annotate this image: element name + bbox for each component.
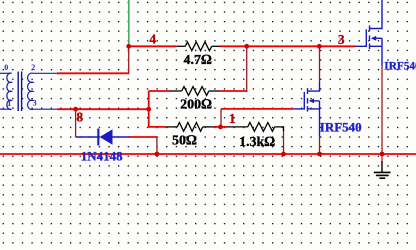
junction node4 at green wire (126, 44, 131, 49)
transformer T1 (0, 72, 57, 112)
junction 1.3k/bottom rail (281, 152, 286, 157)
svg-text:3: 3 (33, 99, 37, 108)
node label 4 (149, 32, 156, 47)
junction diode/bottom rail (155, 152, 160, 157)
wire: 1.3k right corner down to bottom rail (283, 130, 285, 154)
svg-text:4.7Ω: 4.7Ω (183, 53, 212, 68)
wire: M1 source red part down to bottom rail (319, 137, 321, 154)
arrow of M1 (309, 99, 314, 104)
wire: M1 drain red part (319, 46, 321, 82)
resistor 1.3kohm (228, 123, 284, 132)
pin 3 of T1 (33, 99, 37, 108)
svg-text:IRF540: IRF540 (384, 61, 416, 73)
mosfet M2 IRF540 right (355, 0, 382, 66)
svg-text:200Ω: 200Ω (180, 98, 212, 113)
junction transformer/branches (146, 107, 151, 112)
label IRF540 of M1 (320, 119, 362, 134)
wire: vertical at x=148.7 from 200ohm row to 50ohm row (148, 91, 150, 127)
resistor 4.7ohm (177, 42, 220, 51)
junction ground/bottom rail (380, 152, 385, 157)
svg-text:1: 1 (7, 99, 11, 108)
svg-text:1: 1 (229, 111, 236, 126)
svg-text:1N4148: 1N4148 (81, 148, 123, 163)
junction rail/200ohm (244, 44, 249, 49)
svg-text:50Ω: 50Ω (172, 134, 197, 149)
wire: 50ohm right wire to node1 (214, 126, 220, 128)
wire: node1 to 1.3k lead (221, 126, 228, 128)
junction rail/M1 drain (317, 44, 322, 49)
mosfet M1 IRF540 center (293, 82, 320, 137)
label IRF540 of M2 (384, 61, 416, 73)
node label 1 (229, 111, 236, 126)
svg-text:2: 2 (31, 63, 35, 72)
pin 1 of T1 (7, 99, 11, 108)
wire: node4 rail mid segment (220, 45, 355, 47)
pin 2 of T1 (31, 63, 35, 72)
wire: ground stub (381, 154, 383, 162)
wire: bottom ground rail (0, 153, 416, 155)
wire: node4 rail left segment (129, 45, 177, 47)
wire: M2 source red part (381, 65, 383, 154)
svg-text:IRF540: IRF540 (320, 119, 362, 134)
wire: green net at top (128, 0, 130, 46)
resistor 50ohm (166, 123, 214, 132)
svg-text:4: 4 (149, 32, 156, 47)
diode D1 1N4148 (76, 129, 130, 146)
svg-text:8: 8 (76, 109, 83, 124)
wire: 200ohm right wire to vertical (220, 90, 247, 92)
wire: diode drop to bottom rail (156, 137, 158, 154)
junction M1 source/bottom rail (317, 152, 322, 157)
wire: transformer bottom red segment (57, 108, 149, 110)
wire: drop from node4 to transformer top (128, 46, 130, 73)
junction node1 (218, 125, 223, 130)
resistor 200ohm (169, 87, 220, 96)
wire: diode top drop at x=75.6 (75, 109, 77, 137)
pin 0 of T1 (4, 63, 8, 72)
label 50ohm value (172, 134, 197, 149)
label 1N4148 (81, 148, 123, 163)
wire: 200ohm left lead wire (149, 90, 169, 92)
label 200ohm value (180, 98, 212, 113)
junction node8 (73, 107, 78, 112)
arrow of M2 (371, 36, 376, 41)
ground symbol (374, 161, 391, 178)
svg-text:3: 3 (338, 32, 345, 47)
wire: 50ohm left wire (148, 126, 166, 128)
label 1.3kohm value (239, 135, 275, 150)
node label 3 (338, 32, 345, 47)
wire: diode anode red wire (130, 136, 157, 138)
svg-text:1.3kΩ: 1.3kΩ (239, 135, 275, 150)
svg-text:0: 0 (4, 63, 8, 72)
wire: vertical x=246.7 rail to 200ohm (246, 46, 248, 91)
label 4.7ohm value (183, 53, 212, 68)
wire: transformer top red segment (57, 72, 129, 74)
node label 8 (76, 109, 83, 124)
wire: gate wire of M1 (221, 108, 293, 110)
wire: vertical node1 up to gate row (220, 109, 222, 127)
